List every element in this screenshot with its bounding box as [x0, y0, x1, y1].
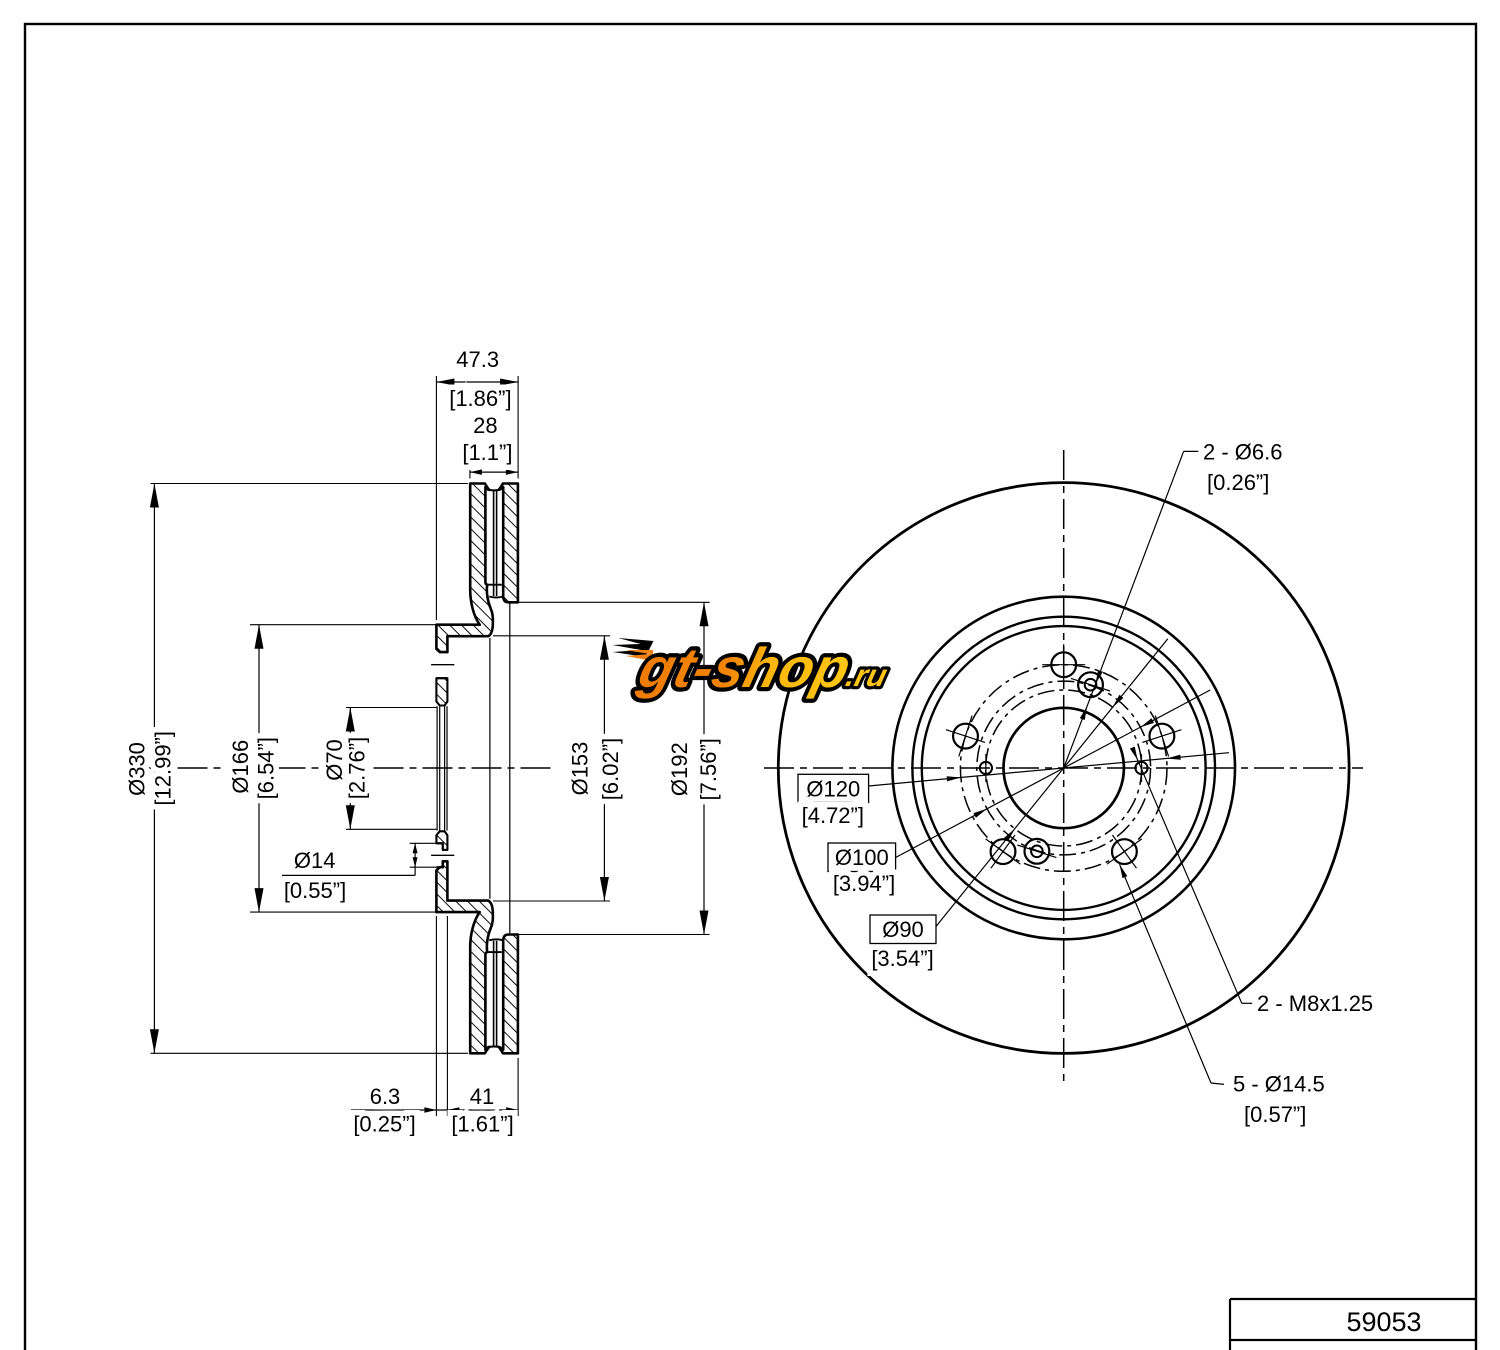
svg-text:Ø100: Ø100 [835, 845, 889, 870]
svg-text:6.3: 6.3 [370, 1084, 401, 1109]
svg-text:[3.54”]: [3.54”] [871, 946, 933, 971]
svg-text:41: 41 [470, 1084, 494, 1109]
svg-text:2 - M8x1.25: 2 - M8x1.25 [1257, 991, 1373, 1016]
svg-text:Ø153: Ø153 [568, 742, 593, 796]
svg-text:[0.26”]: [0.26”] [1207, 470, 1269, 495]
svg-text:[12.99”]: [12.99”] [151, 731, 176, 806]
svg-text:[7.56”]: [7.56”] [696, 738, 721, 800]
svg-text:[0.25”]: [0.25”] [353, 1112, 415, 1137]
svg-text:[0.57”]: [0.57”] [1244, 1102, 1306, 1127]
svg-text:Ø192: Ø192 [667, 742, 692, 796]
svg-text:[0.55”]: [0.55”] [284, 878, 346, 903]
svg-text:47.3: 47.3 [456, 347, 499, 372]
svg-text:Ø70: Ø70 [322, 739, 347, 781]
svg-text:Ø90: Ø90 [882, 917, 924, 942]
svg-text:59053: 59053 [1346, 1307, 1421, 1337]
svg-text:Ø120: Ø120 [806, 776, 860, 801]
svg-text:[1.86”]: [1.86”] [449, 386, 511, 411]
svg-text:[6.54”]: [6.54”] [253, 737, 278, 799]
svg-text:gt-shop: gt-shop [632, 638, 857, 700]
svg-text:Ø330: Ø330 [125, 742, 150, 796]
svg-text:[1.61”]: [1.61”] [451, 1112, 513, 1137]
svg-text:[3.94”]: [3.94”] [833, 871, 895, 896]
svg-text:Ø14: Ø14 [294, 848, 336, 873]
svg-text:[4.72”]: [4.72”] [802, 803, 864, 828]
svg-text:[6.02”]: [6.02”] [598, 738, 623, 800]
svg-text:5 - Ø14.5: 5 - Ø14.5 [1233, 1072, 1325, 1097]
svg-text:28: 28 [473, 413, 497, 438]
svg-text:2 - Ø6.6: 2 - Ø6.6 [1203, 440, 1282, 465]
svg-text:Ø166: Ø166 [228, 740, 253, 794]
svg-text:[2.76”]: [2.76”] [345, 737, 370, 799]
svg-text:[1.1”]: [1.1”] [462, 440, 512, 465]
